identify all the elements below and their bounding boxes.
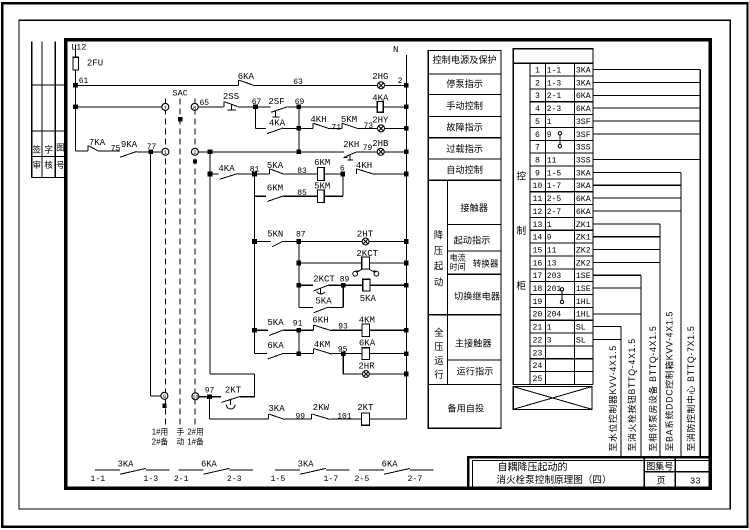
node - junction row3 x299 [297, 126, 302, 131]
wire - rail x254.5 rowG to rowH [254, 330, 256, 353]
svg-text:号: 号 [56, 160, 65, 170]
wire - 2KT contact to rail x254.4 [240, 396, 254, 398]
svg-text:2-5: 2-5 [547, 195, 562, 204]
svg-text:1-7: 1-7 [547, 182, 562, 191]
svg-text:203: 203 [547, 272, 562, 281]
svg-text:手: 手 [177, 427, 185, 437]
wire - 4KH to N rail rowA [375, 173, 407, 175]
svg-text:2SS: 2SS [223, 92, 239, 102]
svg-text:9: 9 [547, 234, 552, 243]
svg-text:降: 降 [434, 230, 444, 241]
wire - row2 left rail to SAC contact 7 [76, 106, 162, 108]
svg-text:63: 63 [293, 78, 303, 87]
node 69 [297, 105, 302, 110]
svg-text:2-3: 2-3 [547, 105, 562, 114]
svg-text:1#备: 1#备 [187, 437, 204, 447]
wire - rail x150.6 down to row J [150, 152, 152, 396]
svg-text:83: 83 [297, 167, 307, 176]
svg-text:6KA: 6KA [359, 339, 376, 349]
node - N rail rowI [404, 372, 409, 377]
svg-text:4KH: 4KH [310, 115, 326, 125]
svg-text:页: 页 [656, 475, 665, 485]
lamp 2HT (start indicator) [362, 238, 369, 245]
node - rowD left [297, 261, 302, 266]
wires - terminals 21,22 to water level controller cable [593, 326, 621, 328]
svg-text:起: 起 [434, 261, 444, 272]
svg-text:204: 204 [547, 311, 562, 320]
contact 4KH (NO) rowA [356, 169, 358, 174]
cable to water level controller (vertical) [620, 327, 622, 457]
wire - coil 6KA to N rail [370, 353, 407, 355]
svg-text:2HB: 2HB [372, 139, 389, 149]
svg-text:12: 12 [532, 208, 542, 217]
svg-text:签: 签 [33, 145, 42, 155]
svg-text:20: 20 [532, 311, 542, 320]
wire - rowB up to node 6 [342, 174, 344, 196]
wire - row J to SAC 9 [151, 395, 161, 397]
wire - 6KA to junction x299 [284, 353, 299, 355]
svg-text:87: 87 [296, 231, 306, 240]
svg-text:4KM: 4KM [314, 340, 330, 350]
svg-text:控制电源及保护: 控制电源及保护 [432, 54, 496, 65]
node - N rail rowA [404, 172, 409, 177]
svg-text:自耦降压起动的: 自耦降压起动的 [498, 461, 568, 474]
svg-text:审: 审 [33, 160, 42, 170]
wire 99 - 3KA to 2KW [285, 418, 312, 420]
svg-text:5KA: 5KA [267, 318, 284, 328]
svg-text:7: 7 [535, 144, 540, 153]
node - N rail row2 [404, 105, 409, 110]
svg-text:79: 79 [363, 144, 373, 153]
node - rowE left [297, 283, 302, 288]
svg-text:8: 8 [193, 104, 196, 111]
svg-text:6KH: 6KH [312, 315, 328, 325]
svg-text:1#用: 1#用 [152, 428, 168, 437]
svg-text:19: 19 [532, 298, 542, 307]
contact 2KT (NC time delay) [222, 397, 240, 403]
node - rowH x299 [297, 351, 302, 356]
svg-text:65: 65 [199, 99, 209, 108]
wire - 2SS to node 67 [238, 106, 256, 108]
svg-text:33: 33 [690, 476, 701, 486]
wire 83 - 5KA to coil 6KM [284, 173, 317, 175]
terminal table grid verticals [544, 63, 546, 384]
svg-text:71: 71 [331, 124, 341, 133]
cable to fire control center (vertical) [699, 70, 701, 457]
terminal table header box [513, 49, 593, 64]
contact 4KH (NO) row3 [312, 123, 314, 128]
SAC dashed linkage line manual [179, 99, 181, 425]
svg-text:2KW: 2KW [313, 403, 330, 413]
svg-text:15: 15 [532, 246, 542, 255]
svg-text:2FU: 2FU [87, 59, 103, 69]
svg-text:3SS: 3SS [576, 156, 591, 165]
svg-text:2-1: 2-1 [174, 475, 189, 484]
svg-text:1-1: 1-1 [547, 67, 562, 76]
svg-text:ZK1: ZK1 [576, 221, 591, 230]
wire - node 91 down to rowH [298, 330, 300, 353]
svg-text:10: 10 [192, 395, 198, 401]
SAC contact terminal 8 [191, 103, 198, 110]
svg-text:14: 14 [532, 234, 542, 243]
pushbutton 2SS (stop, NC) [223, 101, 225, 107]
cable to adjacent pump room (vertical) [659, 224, 661, 457]
terminal table bottom crossed box [513, 387, 592, 410]
svg-text:压: 压 [434, 245, 443, 256]
N rail vertical [405, 55, 407, 419]
lamp 2HB (overload indicator) [377, 148, 384, 155]
svg-text:6: 6 [340, 165, 345, 174]
node - row4 left junction x210 [208, 150, 213, 155]
wire - 2SF to node 69 [288, 106, 299, 108]
svg-text:6KA: 6KA [576, 208, 591, 217]
svg-text:75: 75 [111, 144, 121, 153]
node - N rail row1 [404, 83, 409, 88]
svg-text:7KA: 7KA [89, 138, 106, 148]
svg-text:4: 4 [535, 105, 540, 114]
svg-text:3KA: 3KA [298, 459, 315, 469]
wire 63 - 6KA to lamp 2HG [255, 84, 378, 86]
wire 79 - 2KH to lamp 2HB [356, 151, 377, 153]
node 91 [297, 328, 302, 333]
wire - row4 junction to x299 [210, 151, 299, 153]
wire - 5KA seal branch right vertical [342, 285, 344, 307]
svg-text:89: 89 [340, 275, 350, 284]
svg-text:图: 图 [56, 143, 65, 153]
svg-text:22: 22 [532, 336, 542, 345]
lamp 2HG (stop indicator) [378, 82, 385, 89]
wire - vertical node69 down to row3/row4 [298, 107, 300, 152]
node - N rail row4 [404, 150, 409, 155]
contact 5KA (seal NO) rowF [314, 307, 329, 313]
svg-text:1-1: 1-1 [90, 475, 105, 484]
wire - rowD down to rowE [298, 263, 300, 285]
svg-text:61: 61 [79, 77, 89, 86]
node - N rail rowG [404, 328, 409, 333]
contact 6KM (interlock NO) rowB [267, 196, 283, 202]
svg-text:4KA: 4KA [269, 119, 286, 129]
svg-text:动: 动 [177, 437, 185, 447]
contactor coil 6KA [362, 348, 370, 360]
svg-text:4KA: 4KA [372, 94, 389, 104]
contact 3KA (auxiliary, bottom row) [95, 469, 120, 471]
svg-text:91: 91 [293, 319, 303, 328]
svg-text:21: 21 [532, 324, 542, 333]
svg-text:ZK2: ZK2 [576, 259, 591, 268]
wire - 5KA seal branch bottom left [299, 306, 313, 308]
wire 75 - 7KA to 9KA [99, 150, 120, 152]
svg-text:99: 99 [295, 412, 305, 421]
wire - node 97 down to rowK [209, 397, 211, 419]
wire - lamp 2HY to N rail [385, 127, 407, 129]
SAC dashed linkage line position1 [164, 99, 166, 425]
contact 2KCT (time delayed NO) rowE [314, 285, 329, 291]
function label column outer box [428, 50, 501, 428]
wire - left rail top from L12 to fuse [75, 45, 77, 58]
svg-text:9: 9 [547, 131, 552, 140]
wire - node 89 to coil 5KA [343, 284, 363, 286]
wire - 4KA to node 81 [238, 173, 255, 175]
svg-text:手动控制: 手动控制 [446, 100, 483, 111]
svg-text:6KA: 6KA [576, 92, 591, 101]
svg-text:故障指示: 故障指示 [446, 122, 483, 133]
svg-text:1SE: 1SE [576, 272, 591, 281]
contact 5KA (NO) rowA [269, 169, 271, 174]
wire - rowK start [210, 418, 269, 420]
svg-text:2SF: 2SF [268, 97, 284, 107]
wire 101 - 2KW to coil 2KT [330, 418, 361, 420]
node - rowA left x210 [208, 172, 213, 177]
contact 4KA (seal-in, NO) [267, 128, 283, 134]
contact 2KH (NC) row4 [344, 152, 356, 157]
svg-text:至水位控制器KVV-4X1.5: 至水位控制器KVV-4X1.5 [607, 345, 618, 451]
wire - 5KA seal branch bottom right [329, 306, 344, 308]
node junction left rail row2 [73, 105, 78, 110]
svg-text:2HT: 2HT [357, 230, 374, 240]
wire - node 67 down to 4KA seal branch [255, 107, 257, 128]
contact 5KA (NO) rowG [269, 330, 284, 336]
wire - lamp 2HR to N rail [369, 373, 406, 375]
svg-text:运行指示: 运行指示 [457, 365, 494, 376]
relay coil 4KA [377, 102, 383, 113]
svg-text:1HL: 1HL [576, 311, 591, 320]
wire - node 77 wire to SAC 1 [151, 151, 162, 153]
svg-text:8: 8 [535, 156, 540, 165]
function label column sub dividers [447, 223, 501, 225]
svg-text:6KM: 6KM [314, 158, 330, 168]
wire 2 - lamp 2HG to N rail [385, 84, 407, 86]
svg-text:2: 2 [535, 79, 540, 88]
svg-text:6KA: 6KA [576, 105, 591, 114]
node 6 [341, 172, 346, 177]
SAC contact terminal 10 [192, 393, 199, 400]
wire - rail R1 x210 down from row4 to bend [209, 152, 211, 374]
svg-text:101: 101 [337, 413, 352, 422]
svg-text:3KA: 3KA [576, 169, 591, 178]
contact 4KA (NO) rowA [219, 174, 238, 180]
contact 6KA (NO) rowH [268, 353, 284, 359]
node 97 [207, 394, 212, 399]
wire - coil 5KM right to x343 [324, 195, 343, 197]
wire - coil 4KA to N rail [383, 106, 406, 108]
svg-text:自动控制: 自动控制 [446, 164, 483, 175]
contact 6KA (auxiliary, bottom row) [359, 469, 384, 471]
svg-text:1-3: 1-3 [143, 475, 158, 484]
terminal table grid horizontals [530, 62, 593, 64]
svg-text:93: 93 [338, 322, 348, 331]
svg-text:过载指示: 过载指示 [446, 143, 483, 154]
wire - node81 to 5KA contact [255, 173, 270, 175]
wire - coil 5KA to N rail [370, 284, 406, 286]
wire - lamp 2HB to N rail [384, 151, 406, 153]
contactor coil 4KM [362, 324, 370, 337]
svg-text:2HG: 2HG [372, 72, 388, 82]
wires - terminals 9-12 to BA DDC cable [593, 171, 681, 173]
svg-text:停泵指示: 停泵指示 [446, 78, 483, 89]
svg-text:24: 24 [532, 362, 542, 371]
relay coil 5KA [363, 279, 370, 291]
svg-text:4KM: 4KM [359, 316, 375, 326]
svg-text:6: 6 [535, 131, 540, 140]
svg-text:3SF: 3SF [576, 131, 591, 140]
svg-text:3KA: 3KA [118, 459, 135, 469]
wire - node81 down to rowB [254, 174, 256, 196]
SAC closed-position dot row7-8 manual [178, 117, 182, 121]
contact 3KA (auxiliary, bottom row) [275, 469, 300, 471]
wire - SAC contact 2 to node at row4 [198, 151, 210, 153]
SAC contact terminal 9 [161, 392, 168, 399]
svg-text:2-7: 2-7 [547, 208, 562, 217]
SAC contact terminal 1 [162, 148, 169, 155]
svg-text:1-7: 1-7 [324, 475, 339, 484]
contact 6KA (auxiliary, bottom row) [178, 469, 203, 471]
wire - node 97 to 2KT contact [210, 396, 222, 398]
wire - rowC start to 5KN [255, 241, 271, 243]
svg-text:2KT: 2KT [225, 386, 242, 396]
title block divider vertical 2 [674, 457, 676, 488]
wire 85 - 6KM to coil 5KM [284, 195, 318, 197]
svg-text:11: 11 [547, 156, 557, 165]
wires - terminals 13-16 to adjacent pump room cable [593, 223, 660, 225]
contact 5KN (NO) rowC [272, 241, 284, 247]
node - N rail rowD [404, 261, 409, 266]
node 95 [341, 351, 346, 356]
node - rowG left [252, 328, 257, 333]
svg-text:2KCT: 2KCT [313, 275, 335, 285]
wire - coil 4KM to N rail [370, 329, 407, 331]
node 87 [297, 239, 302, 244]
svg-text:2HR: 2HR [358, 362, 375, 372]
svg-text:1-5: 1-5 [547, 169, 562, 178]
svg-text:ZK2: ZK2 [576, 246, 591, 255]
wire - rowE start [299, 284, 313, 286]
pushbutton 2SF (start, NO) [256, 106, 271, 108]
svg-text:字: 字 [44, 145, 53, 155]
wire - 5KA seal branch left vertical [298, 285, 300, 307]
wire - 2KCT contact to node 89 [329, 284, 344, 286]
wire - node 69 to coil 4KA [299, 106, 377, 108]
contact 4KM (interlock NO) rowH [312, 348, 314, 353]
node 61 [73, 83, 78, 88]
svg-text:3SF: 3SF [576, 118, 591, 127]
svg-text:11: 11 [547, 246, 557, 255]
contactor coil 6KM [318, 168, 325, 181]
svg-text:25: 25 [532, 375, 542, 384]
lamp 2HY (fault indicator) [378, 125, 385, 132]
svg-text:4KA: 4KA [218, 164, 235, 174]
svg-text:核: 核 [44, 160, 53, 170]
svg-text:1: 1 [547, 118, 552, 127]
SAC contact terminal 7 [162, 103, 169, 110]
node - N rail rowC [404, 239, 409, 244]
svg-text:时间: 时间 [450, 262, 466, 272]
svg-text:电流: 电流 [450, 252, 466, 262]
svg-text:16: 16 [532, 259, 542, 268]
SAC dashed linkage line position2 [194, 99, 196, 425]
svg-text:67: 67 [252, 98, 262, 107]
svg-text:5: 5 [535, 118, 540, 127]
terminal table cabinet column box [513, 63, 530, 384]
wire - rowG start [255, 329, 269, 331]
wire 71 - 4KH to 5KM [330, 127, 342, 129]
node - N rail row3 [404, 126, 409, 131]
wire 95 - 4KM to node 95 [332, 353, 344, 355]
node - row4 x299 [297, 150, 302, 155]
svg-text:动: 动 [434, 276, 443, 287]
svg-text:N: N [393, 45, 398, 55]
wire - rowH start [255, 353, 267, 355]
SAC closed-position dot row1-2 position2 [193, 159, 197, 163]
title block outer box [468, 457, 710, 488]
svg-text:3KA: 3KA [268, 404, 285, 414]
node - rowC left [252, 239, 257, 244]
wire - rail x254.5 rowB to rowC [254, 196, 256, 241]
wire 93 - 6KH to coil 4KM [331, 329, 362, 331]
svg-text:18: 18 [532, 285, 542, 294]
svg-text:6KA: 6KA [382, 459, 399, 469]
lamp 2HR (run indicator) [363, 371, 370, 378]
wire - SAC contact 10 to node 97 [199, 396, 210, 398]
wire - row1 left rail to 6KA contact [76, 84, 239, 86]
svg-text:85: 85 [297, 189, 307, 198]
svg-text:9KA: 9KA [121, 140, 138, 150]
node 77 [148, 150, 153, 155]
svg-text:17: 17 [532, 272, 542, 281]
svg-text:接触器: 接触器 [460, 202, 488, 213]
svg-text:3SS: 3SS [576, 144, 591, 153]
svg-text:2#用: 2#用 [187, 428, 203, 437]
svg-text:7: 7 [164, 104, 167, 111]
svg-text:5KA: 5KA [315, 297, 332, 307]
wire - rowI to lamp 2HR [343, 373, 362, 375]
node - N rail rowE [404, 283, 409, 288]
svg-text:主接触器: 主接触器 [455, 338, 492, 349]
svg-text:压: 压 [434, 341, 443, 352]
wire - SAC contact 8 to stop button 2SS [198, 106, 224, 108]
wire - rail x254.5 rowC to rowG [254, 242, 256, 331]
svg-text:制: 制 [516, 224, 526, 237]
wire 73 - 5KM to lamp 2HY [359, 127, 378, 129]
time relay coil 2KCT [362, 257, 370, 269]
svg-text:4KH: 4KH [356, 161, 372, 171]
svg-text:1: 1 [547, 221, 552, 230]
svg-text:2HY: 2HY [372, 115, 389, 125]
svg-text:图集号: 图集号 [646, 461, 673, 472]
svg-text:13: 13 [532, 221, 542, 230]
svg-text:3KA: 3KA [576, 79, 591, 88]
svg-text:9: 9 [163, 393, 166, 400]
contact 2KW (NO) rowK [311, 414, 313, 419]
svg-text:2KH: 2KH [343, 140, 359, 150]
contact 6KH (NO) rowG [313, 325, 315, 330]
node - N rail rowH [404, 351, 409, 356]
cable to BA DDC box (vertical) [680, 172, 682, 456]
svg-text:201: 201 [547, 285, 562, 294]
svg-text:备用自投: 备用自投 [447, 402, 484, 413]
svg-text:10: 10 [532, 182, 542, 191]
svg-text:1HL: 1HL [576, 298, 591, 307]
contact 6KA (relay, NO) row1 [238, 80, 240, 85]
svg-text:1: 1 [547, 324, 552, 333]
svg-text:6KA: 6KA [267, 341, 284, 351]
svg-text:运: 运 [434, 355, 444, 366]
svg-text:至消防控制中心 BTTQ-7X1.5: 至消防控制中心 BTTQ-7X1.5 [685, 326, 696, 452]
svg-text:69: 69 [295, 98, 305, 107]
svg-text:6KA: 6KA [576, 195, 591, 204]
coil 2KCT arrow symbols [357, 269, 362, 272]
svg-text:6KM: 6KM [267, 183, 283, 193]
svg-text:2-3: 2-3 [227, 475, 242, 484]
